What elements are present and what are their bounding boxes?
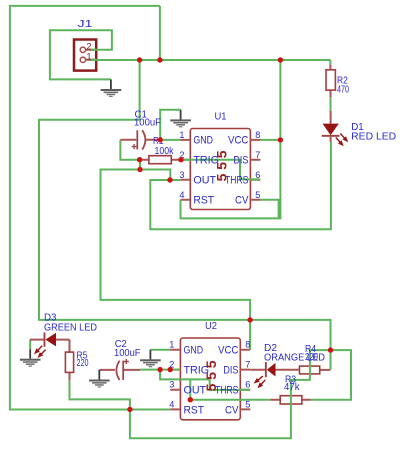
svg-text:220: 220	[77, 358, 89, 369]
LED D3	[30, 332, 70, 356]
J1 pin 1 circle	[80, 57, 85, 62]
svg-text:RST: RST	[193, 195, 214, 207]
svg-text:1: 1	[179, 130, 184, 140]
svg-text:J1: J1	[78, 19, 94, 30]
wire R2 top	[329, 60, 331, 65]
svg-text:RST: RST	[184, 404, 205, 416]
ground G4 (U2 GND)	[140, 350, 161, 368]
ground G3 (D3)	[20, 349, 41, 367]
svg-text:220: 220	[305, 352, 318, 363]
svg-text:4: 4	[169, 399, 174, 409]
node VCC rail at x=159.9	[157, 57, 162, 62]
svg-text:3: 3	[169, 380, 174, 390]
svg-text:GND: GND	[184, 345, 204, 357]
svg-text:8: 8	[245, 340, 250, 350]
capacitor C2	[99, 359, 140, 380]
wire TRIG node to OUT junction	[140, 170, 170, 181]
svg-text:555: 555	[203, 357, 219, 392]
node U1 VCC pin	[278, 137, 283, 142]
U2 pin stubs	[170, 350, 250, 410]
J1 pin 2 circle	[80, 47, 85, 52]
svg-text:4: 4	[179, 190, 184, 200]
resistor R4	[300, 366, 331, 374]
svg-text:5: 5	[255, 190, 260, 200]
wire U1 OUT to D1 cathode	[150, 142, 331, 230]
svg-text:VCC: VCC	[228, 135, 248, 147]
node U1 OUT	[167, 177, 172, 182]
node U1 TRIG right	[178, 157, 183, 162]
wire VCC branch down-left to y=320 rail and U2 area	[39, 60, 331, 350]
node U1 GND / C1 minus	[158, 137, 163, 142]
node VCC rail at x=139.6	[137, 57, 142, 62]
J1 pin lines	[86, 50, 96, 60]
svg-text:100k: 100k	[155, 146, 175, 157]
node U1 TRIG lower	[137, 167, 142, 172]
wire J1 pin1 to VCC rail	[91, 59, 140, 61]
connector J1 box	[74, 40, 96, 71]
svg-text:6: 6	[245, 380, 250, 390]
wire R1 right to U1 THRS under IC	[181, 160, 260, 180]
wire C1 plus to TRIG node	[120, 140, 139, 160]
resistor R2	[326, 65, 335, 97]
wire R2 to D1 anode	[330, 97, 332, 111]
wire VCC rail y=60	[91, 59, 331, 61]
wire U1 VCC pin stub join	[260, 139, 280, 141]
node VCC rail at x=280.4	[278, 57, 283, 62]
svg-text:U2: U2	[205, 321, 217, 332]
LED D1	[322, 111, 347, 145]
wire U2 under-IC drop to R3 row	[189, 379, 191, 399]
wire U2 GND to ground	[150, 349, 170, 351]
svg-text:100uF: 100uF	[134, 118, 161, 129]
wire U2 OUT row to R3	[190, 399, 270, 401]
wire top drop to VCC rail	[159, 6, 161, 60]
capacitor C1	[120, 130, 160, 149]
wire U1 GND to ground	[160, 110, 180, 140]
LED D2	[250, 362, 299, 387]
svg-text:47k: 47k	[284, 382, 300, 393]
node U1 TRIG left	[137, 157, 142, 162]
wire C2 to U2 TRIG	[140, 369, 180, 371]
svg-text:555: 555	[213, 147, 229, 182]
resistor R1	[140, 156, 181, 164]
node U2 OUT row	[188, 397, 193, 402]
svg-text:6: 6	[255, 170, 260, 180]
svg-text:CV: CV	[235, 195, 249, 207]
wire U1 VCC drop and RST return	[181, 60, 281, 218]
svg-text:7: 7	[255, 150, 260, 160]
wire top loop + left rail to U2 RST	[10, 6, 171, 410]
node U2 TRIG left	[157, 367, 162, 372]
svg-text:U1: U1	[215, 111, 227, 122]
svg-text:DIS: DIS	[233, 155, 248, 167]
svg-text:DIS: DIS	[223, 365, 238, 377]
svg-text:100uF: 100uF	[114, 348, 141, 359]
node VCC right x=330	[328, 347, 333, 352]
IC U2 (555 timer) body	[180, 338, 240, 420]
svg-text:1: 1	[86, 52, 91, 63]
wire VCC node through R4 R3 to RST net	[70, 350, 331, 438]
wire R3 right loop to VCC node	[311, 350, 352, 400]
wire TRIG node to U2 VCC	[101, 170, 251, 350]
svg-text:GREEN LED: GREEN LED	[44, 322, 97, 333]
wire TRIG node column	[139, 160, 141, 170]
svg-text:GND: GND	[193, 135, 213, 147]
svg-text:8: 8	[255, 130, 260, 140]
ground G5 (C2)	[89, 370, 110, 388]
node U2 VCC column	[247, 317, 252, 322]
svg-text:CV: CV	[225, 404, 239, 416]
svg-text:RED LED: RED LED	[351, 131, 396, 142]
wire J1 pin2 loop to ground	[50, 30, 112, 79]
resistor R5	[65, 340, 73, 381]
ground G2 (U1 GND)	[170, 110, 191, 128]
wire D3 cathode to ground	[29, 340, 31, 349]
svg-text:VCC: VCC	[218, 345, 238, 357]
wire VCC node to R4	[330, 350, 332, 370]
svg-text:5: 5	[245, 399, 250, 409]
node U2 RST	[127, 407, 132, 412]
resistor R3	[270, 396, 310, 404]
svg-text:470: 470	[337, 84, 349, 95]
ground G1 (J1)	[101, 79, 122, 97]
svg-text:3: 3	[179, 170, 184, 180]
wire U2 TRIG under-IC branch	[160, 370, 250, 390]
IC U1 (555 timer) body	[190, 129, 250, 210]
svg-text:7: 7	[245, 360, 250, 370]
wire U1 CV jog	[260, 200, 278, 219]
U1 pin stubs	[180, 140, 260, 200]
svg-text:1: 1	[169, 340, 174, 350]
node U2 TRIG right	[168, 367, 173, 372]
